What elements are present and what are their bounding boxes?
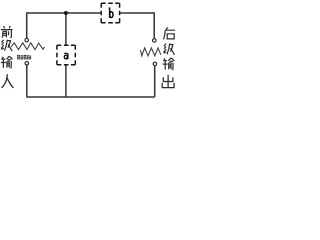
wire left lower vertical <box>26 65 28 98</box>
small label under left resistor (signal source internal resistance) <box>17 55 31 60</box>
dashed box a <box>57 45 75 64</box>
resistor zigzag left (source internal resistance) <box>11 43 44 50</box>
junction dot on top rail <box>64 11 68 15</box>
text 级 (stage) right <box>163 44 174 55</box>
text 后 (rear) <box>164 27 175 39</box>
text 前 (front) <box>1 26 13 38</box>
text 输 (output/transport) right <box>163 58 175 70</box>
wire middle vertical lower <box>65 65 67 97</box>
terminal circle left top <box>25 38 29 42</box>
wire left vertical from top rail to input terminal <box>26 12 28 38</box>
text 输 (input/transport) left <box>1 56 13 68</box>
resistor zigzag right (load resistance) <box>140 48 161 56</box>
text 出 (out) <box>162 75 174 88</box>
label a <box>64 53 68 59</box>
wire right vertical upper <box>153 12 155 38</box>
wire bottom rail <box>27 96 155 98</box>
terminal circle right top <box>153 39 157 43</box>
terminal circle left bottom <box>25 62 29 66</box>
terminal circle right bottom <box>153 62 157 66</box>
text 入 (in) <box>2 74 14 88</box>
label b <box>109 8 113 18</box>
wire middle vertical upper <box>65 13 67 45</box>
text 级 (stage) left <box>1 40 12 51</box>
dashed box b <box>101 3 119 22</box>
wire top rail right segment <box>120 12 154 14</box>
wire right vertical lower <box>154 66 156 97</box>
wire top rail left segment <box>27 12 101 14</box>
